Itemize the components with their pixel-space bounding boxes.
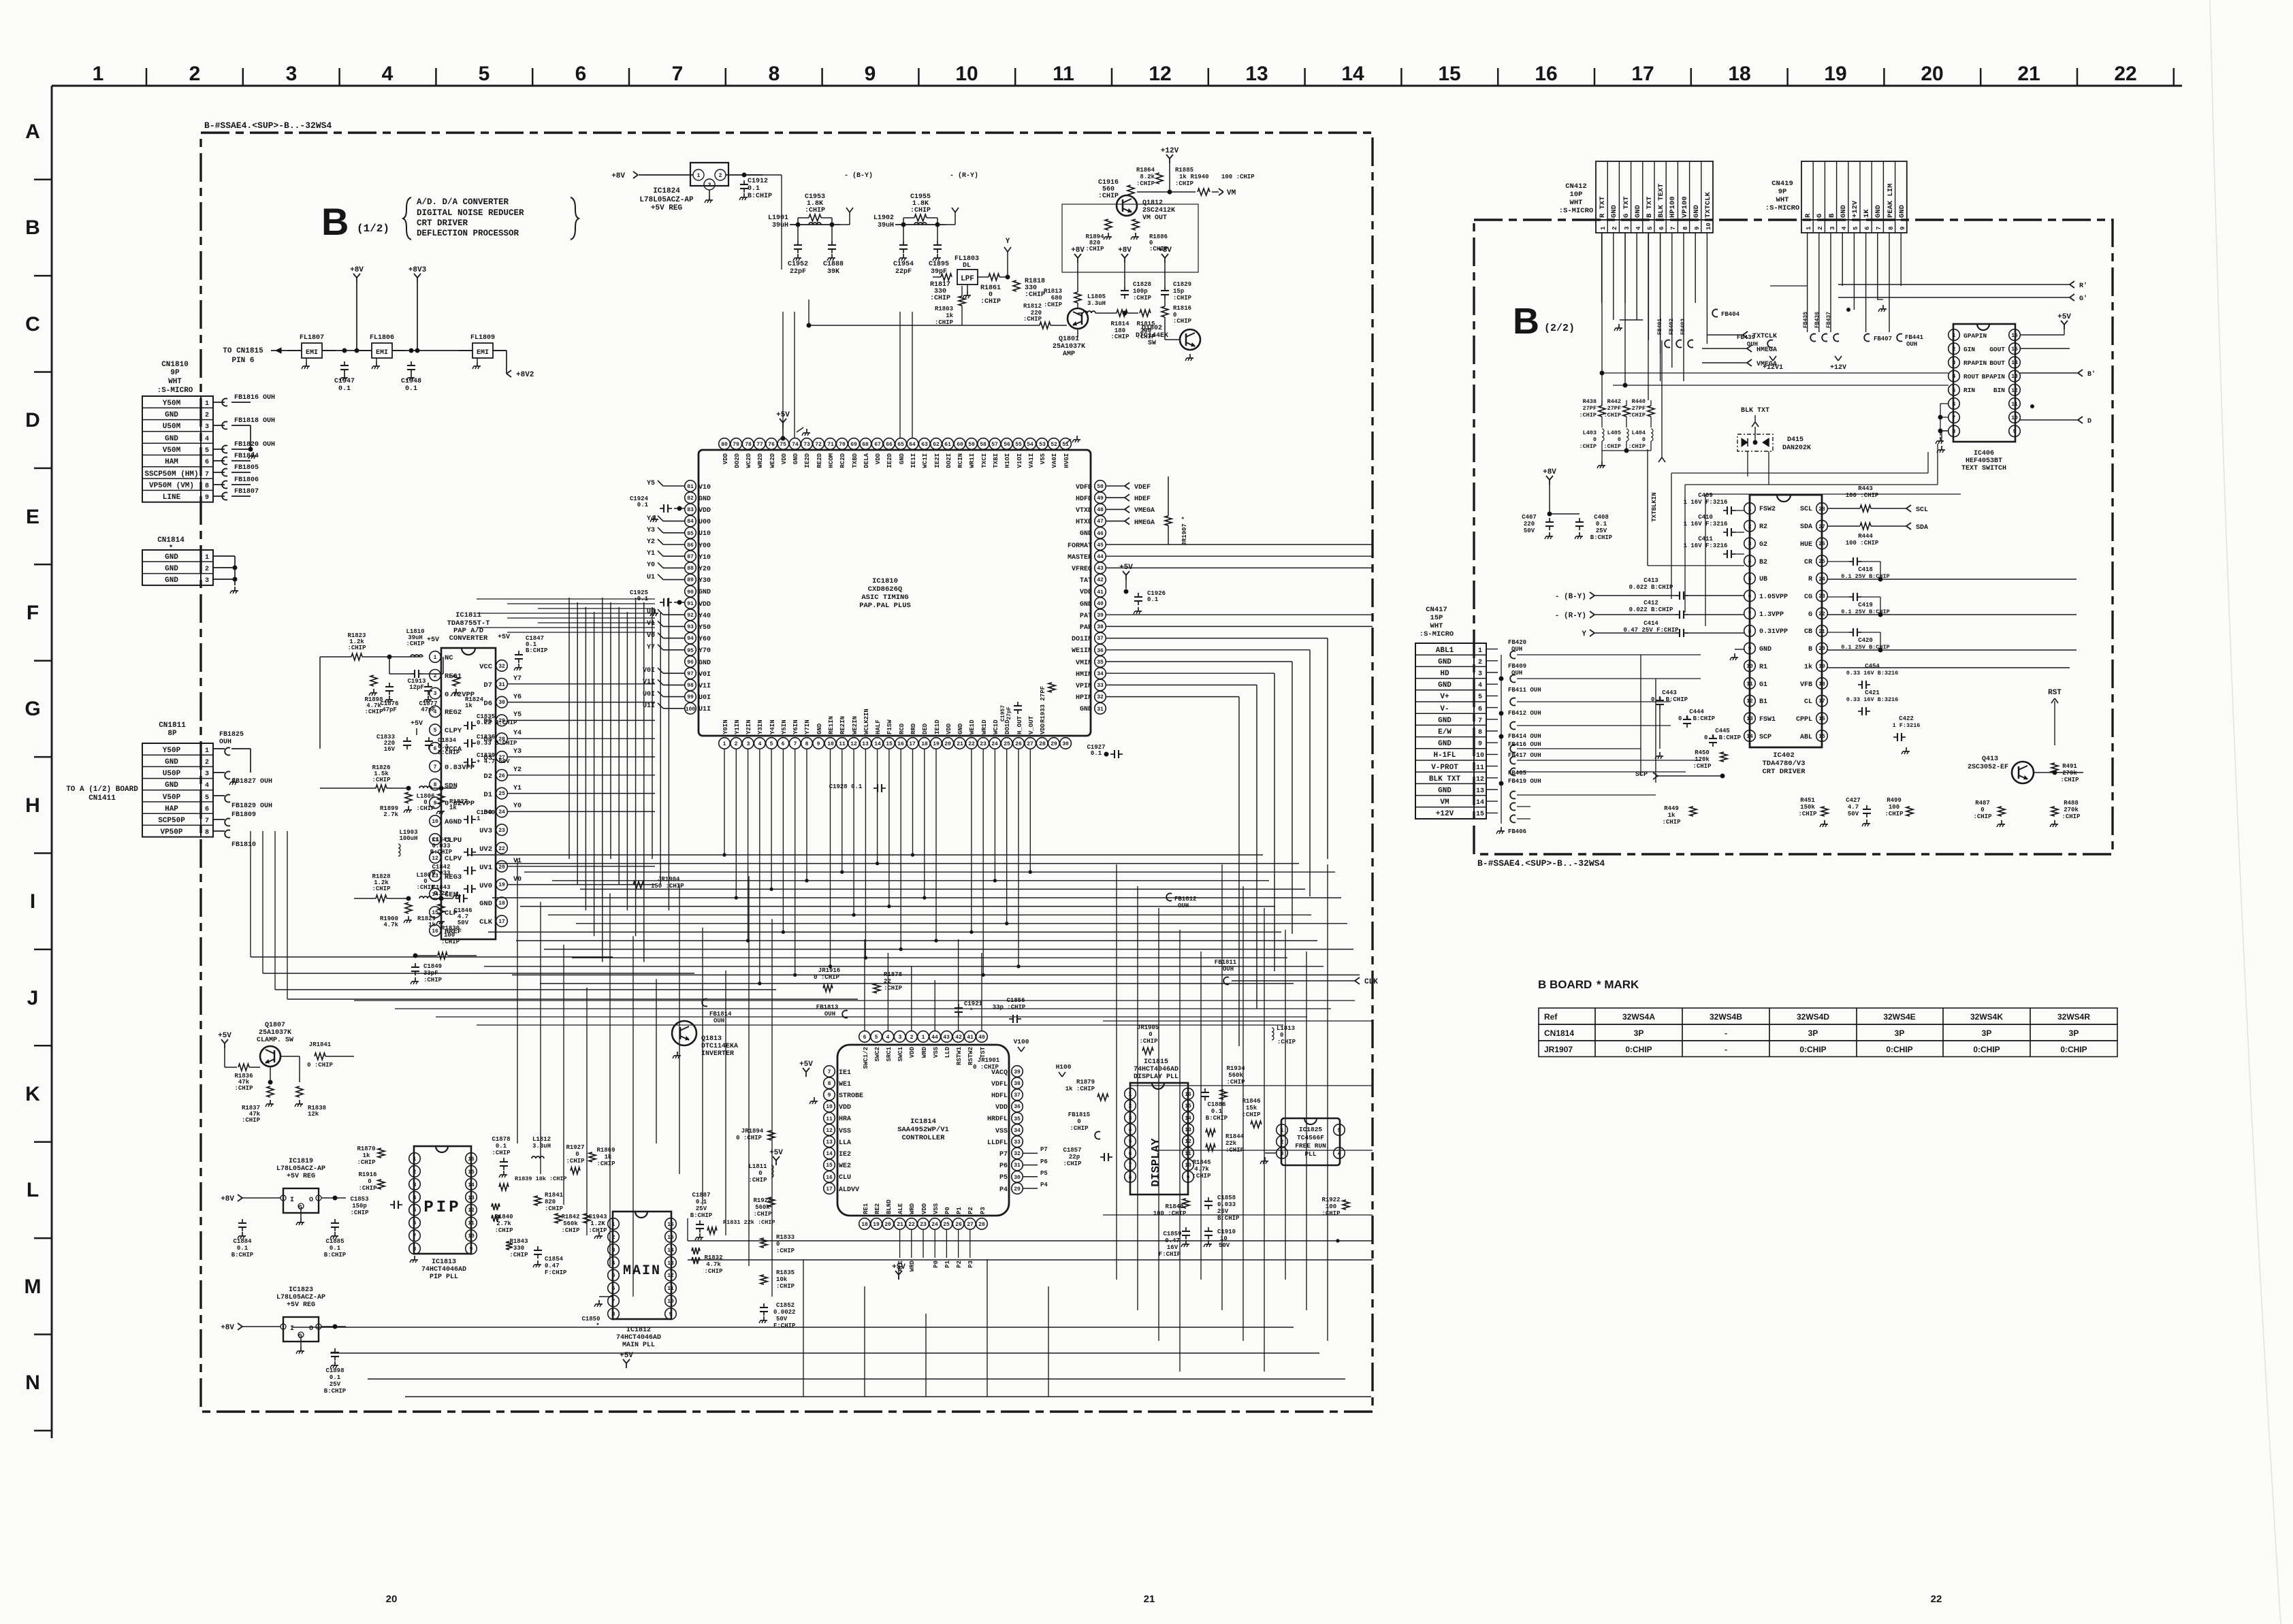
section title B (2/2) (1513, 301, 1575, 342)
svg-text:12: 12 (667, 1273, 674, 1279)
svg-text::CHIP: :CHIP (1603, 412, 1621, 419)
svg-text:3: 3 (1953, 360, 1956, 366)
svg-text:VSS: VSS (995, 1128, 1008, 1135)
svg-text::CHIP: :CHIP (234, 1085, 253, 1092)
svg-text:GND: GND (165, 576, 178, 585)
ASIC IC1810 CXD8626Q (timing PAP.PAL PLUS) with 100 pins (685, 438, 1106, 749)
regulator IC1824 L78L05ACZ-AP +5V REG (611, 163, 772, 212)
svg-text:+5V REG: +5V REG (651, 204, 683, 212)
svg-text:TC4566F: TC4566F (1297, 1134, 1324, 1141)
svg-text:V-PROT: V-PROT (1431, 764, 1458, 772)
svg-text:R1870: R1870 (357, 1146, 375, 1152)
svg-text:C1858: C1858 (1217, 1195, 1236, 1201)
svg-text:CRT DRIVER: CRT DRIVER (1762, 768, 1806, 776)
svg-text:120k: 120k (1695, 756, 1710, 763)
svg-text:V0I: V0I (643, 667, 655, 675)
svg-text:SSCP50M (HM): SSCP50M (HM) (144, 470, 198, 478)
svg-text:Y6: Y6 (513, 694, 522, 701)
svg-text:R1803: R1803 (935, 306, 953, 312)
svg-text:WRD: WRD (909, 1260, 916, 1271)
svg-text:0.1: 0.1 (405, 385, 417, 393)
svg-text:8: 8 (1682, 227, 1689, 230)
svg-text:V0I: V0I (699, 671, 711, 679)
svg-text:B: B (1808, 646, 1812, 653)
svg-text:JR1841: JR1841 (309, 1041, 332, 1048)
section title B (1/2) (321, 197, 579, 243)
svg-text:CN417: CN417 (1426, 606, 1447, 614)
svg-text:26: 26 (955, 1222, 962, 1228)
svg-text:CRT DRIVER: CRT DRIVER (417, 218, 468, 228)
svg-text:R1839 18k :CHIP: R1839 18k :CHIP (515, 1175, 567, 1182)
svg-text:5: 5 (770, 741, 773, 747)
svg-text:B:CHIP: B:CHIP (1206, 1115, 1228, 1122)
svg-text:23: 23 (980, 741, 987, 747)
svg-text:15: 15 (826, 1163, 833, 1169)
svg-text:B-#SSAE4.<SUP>-B..-32WS4: B-#SSAE4.<SUP>-B..-32WS4 (1477, 858, 1605, 868)
svg-text:13: 13 (2011, 374, 2018, 380)
svg-text:3: 3 (286, 63, 298, 85)
svg-text:R1813: R1813 (1044, 288, 1062, 295)
svg-text:B2: B2 (1759, 559, 1767, 566)
svg-text:Y50: Y50 (699, 624, 711, 632)
svg-text:CPPL: CPPL (1796, 716, 1812, 724)
svg-text:GND: GND (1898, 205, 1906, 218)
svg-text:36: 36 (1014, 1104, 1021, 1110)
svg-text:47: 47 (1097, 519, 1104, 525)
svg-text::CHIP: :CHIP (1173, 318, 1192, 325)
ferrite beads FB1816/FB1818/FB1820/FB1804-FB1807 on CN1810 (213, 394, 275, 500)
svg-text:JR1894: JR1894 (741, 1128, 764, 1135)
svg-text:100: 100 (1326, 1203, 1336, 1210)
svg-text:FB1810: FB1810 (231, 841, 256, 849)
svg-text:FB435: FB435 (1803, 312, 1809, 328)
svg-text:HD: HD (1440, 670, 1449, 678)
svg-text::CHIP: :CHIP (364, 709, 383, 715)
svg-text:GND: GND (1693, 205, 1701, 218)
svg-text:C1887: C1887 (692, 1192, 710, 1199)
svg-text:C1829: C1829 (1173, 281, 1191, 288)
svg-text:0.1: 0.1 (696, 1199, 707, 1205)
svg-text::CHIP: :CHIP (1063, 1160, 1082, 1167)
svg-text::CHIP: :CHIP (441, 939, 460, 945)
svg-text:0: 0 (758, 1170, 762, 1177)
svg-text:94: 94 (687, 636, 694, 642)
svg-text:A: A (25, 120, 40, 143)
svg-text:3P: 3P (1808, 1028, 1818, 1038)
svg-text:11: 11 (1185, 1151, 1191, 1157)
svg-text:30: 30 (498, 700, 505, 706)
svg-text:32WS4E: 32WS4E (1883, 1012, 1915, 1022)
svg-text:IC1813: IC1813 (432, 1258, 456, 1266)
svg-text:U50P: U50P (163, 770, 181, 778)
svg-text:95: 95 (687, 648, 694, 654)
svg-text:VDD: VDD (699, 601, 711, 608)
svg-text:9: 9 (1187, 1175, 1190, 1181)
wire bus bottom horizontals (293, 1259, 1371, 1397)
svg-text:0.47: 0.47 (545, 1263, 560, 1269)
svg-text:100 :CHIP: 100 :CHIP (1846, 492, 1879, 499)
svg-text:U1: U1 (647, 574, 655, 581)
svg-text:78: 78 (745, 442, 752, 448)
svg-text:15: 15 (1185, 1103, 1191, 1109)
svg-text:VDD: VDD (1080, 589, 1092, 596)
svg-text:330: 330 (513, 1245, 524, 1252)
svg-text::CHIP: :CHIP (1226, 1079, 1245, 1086)
svg-text:1k: 1k (428, 922, 436, 928)
svg-text:SW: SW (1148, 340, 1156, 347)
svg-text:P0: P0 (933, 1261, 940, 1268)
svg-text::CHIP: :CHIP (406, 640, 425, 647)
svg-text:C1886: C1886 (1207, 1101, 1225, 1108)
svg-text:OUH: OUH (713, 1018, 724, 1024)
svg-text:DTC114EKA: DTC114EKA (701, 1043, 738, 1050)
svg-text:O: O (309, 1325, 313, 1333)
svg-text:C1943: C1943 (588, 1214, 607, 1220)
svg-text:FB1807: FB1807 (234, 488, 259, 496)
svg-text:HMIN: HMIN (1076, 671, 1092, 679)
svg-text:Y20: Y20 (699, 566, 711, 573)
svg-text:1: 1 (1281, 1128, 1284, 1134)
svg-text:19: 19 (873, 1222, 880, 1228)
svg-text:R451: R451 (1800, 797, 1815, 804)
svg-text:4: 4 (1129, 1127, 1132, 1133)
svg-text:9: 9 (1899, 227, 1906, 230)
svg-text:8: 8 (434, 782, 437, 788)
svg-text:7: 7 (1748, 611, 1752, 617)
svg-text:Y7: Y7 (513, 675, 522, 683)
svg-text:88: 88 (687, 566, 694, 572)
svg-text:1: 1 (1478, 647, 1482, 655)
svg-text::CHIP: :CHIP (1175, 180, 1194, 187)
svg-text:6: 6 (1864, 227, 1871, 230)
svg-text:9: 9 (669, 1312, 673, 1318)
svg-text:BPAPIN: BPAPIN (1982, 373, 2006, 380)
svg-text:TEXT SWITCH: TEXT SWITCH (1961, 465, 2006, 472)
svg-text:WE1IN: WE1IN (1072, 647, 1092, 655)
svg-text:91: 91 (687, 601, 694, 607)
svg-text:L404: L404 (1632, 429, 1646, 436)
svg-text:0:CHIP: 0:CHIP (2060, 1045, 2087, 1054)
svg-text:6: 6 (1748, 594, 1752, 600)
svg-text:GND: GND (165, 435, 178, 443)
svg-text:SRC1: SRC1 (886, 1046, 893, 1061)
svg-text:0: 0 (776, 1241, 780, 1248)
svg-text:13: 13 (468, 1195, 475, 1201)
svg-text:20: 20 (386, 1593, 398, 1605)
svg-text:P5: P5 (1040, 1170, 1048, 1177)
svg-text::CHIP: :CHIP (1885, 811, 1904, 817)
svg-text:P1: P1 (944, 1260, 951, 1267)
svg-text:Q413: Q413 (1982, 756, 1998, 763)
svg-text:0.83VPP: 0.83VPP (445, 764, 475, 772)
svg-text:29: 29 (1051, 741, 1057, 747)
svg-text:C1852: C1852 (776, 1302, 795, 1309)
CN412 output wires TXTCLK HMEGA VMEGA FB401-FB404 TXTBLKIN (1602, 232, 1777, 381)
svg-text:4: 4 (1338, 1151, 1341, 1157)
svg-text:2SC3052-EF: 2SC3052-EF (1968, 764, 2008, 771)
svg-text:Q1801: Q1801 (1059, 336, 1079, 343)
svg-text:Q1812: Q1812 (1142, 199, 1163, 207)
svg-text:11: 11 (839, 741, 846, 747)
svg-text:GND: GND (699, 496, 711, 503)
svg-text:VCC: VCC (479, 663, 493, 671)
svg-text:35: 35 (1014, 1116, 1021, 1122)
svg-text:45: 45 (1097, 542, 1104, 549)
svg-text:8: 8 (612, 1312, 615, 1318)
svg-text::CHIP: :CHIP (1085, 246, 1104, 253)
svg-text:8: 8 (413, 1246, 417, 1252)
svg-text:R487: R487 (1975, 800, 1990, 807)
svg-text:RE2: RE2 (874, 1203, 881, 1214)
svg-text:PAT: PAT (1080, 613, 1092, 620)
svg-text:HVGI: HVGI (1063, 453, 1070, 468)
svg-text:FB417 OUH: FB417 OUH (1508, 752, 1541, 759)
svg-text:15p: 15p (1173, 288, 1184, 295)
svg-text:FREE RUN: FREE RUN (1295, 1142, 1326, 1150)
svg-text::CHIP: :CHIP (704, 1268, 723, 1275)
wire bus verticals to PLL area (517, 859, 982, 1297)
svg-text:270k: 270k (2062, 770, 2077, 777)
svg-text:SCL: SCL (1800, 506, 1812, 513)
svg-text:0: 0 (368, 1178, 371, 1185)
svg-text:19: 19 (498, 882, 505, 888)
svg-text:3: 3 (434, 691, 437, 697)
svg-text:Y0IN: Y0IN (722, 719, 729, 734)
svg-text:C407: C407 (1522, 514, 1537, 521)
svg-text:16: 16 (2011, 333, 2018, 339)
svg-text:DED: DED (922, 723, 929, 734)
svg-text:17: 17 (498, 919, 505, 925)
svg-text:I: I (290, 1325, 294, 1333)
svg-text:D: D (25, 409, 40, 432)
svg-text:G TXT: G TXT (1622, 196, 1631, 218)
svg-text:R443: R443 (1858, 485, 1873, 492)
svg-text::CHIP: :CHIP (1225, 1147, 1245, 1154)
wire bus horizontal (mid interconnect) (251, 831, 1360, 1025)
wire C1850 stub (594, 1297, 613, 1307)
ferrite beads FB1825/FB1827/FB1829/FB1809/FB1810 on CN1811 (213, 731, 272, 849)
svg-text:15k: 15k (1246, 1105, 1257, 1111)
svg-text::CHIP: :CHIP (372, 886, 391, 892)
svg-text:27pF: 27pF (1006, 707, 1012, 719)
svg-text::CHIP: :CHIP (242, 1117, 261, 1124)
svg-text:TXTCLK: TXTCLK (1752, 333, 1777, 340)
svg-text:Q1802: Q1802 (1142, 325, 1162, 332)
svg-text:22: 22 (498, 846, 505, 852)
svg-text:5: 5 (1338, 1128, 1341, 1134)
svg-text:Y7IN: Y7IN (804, 719, 811, 734)
svg-text:31: 31 (498, 682, 505, 688)
controller IC1814 SAA4952WP/V1 44-pin (824, 1031, 1023, 1230)
svg-text:FB402: FB402 (1669, 319, 1675, 335)
svg-text:5: 5 (413, 1207, 417, 1214)
svg-text:13: 13 (1746, 716, 1753, 722)
svg-text:FB1818 OUH: FB1818 OUH (234, 417, 275, 425)
svg-text:12: 12 (850, 741, 857, 747)
svg-text::CHIP: :CHIP (776, 1283, 795, 1290)
svg-text:G2: G2 (1759, 541, 1767, 549)
svg-text:6: 6 (1953, 402, 1956, 408)
svg-text:2: 2 (205, 412, 209, 419)
svg-text:B:CHIP: B:CHIP (526, 647, 548, 654)
svg-text:CG: CG (1804, 594, 1812, 601)
svg-text:14: 14 (667, 1248, 674, 1254)
svg-text:Y60: Y60 (699, 636, 711, 643)
svg-text::CHIP: :CHIP (588, 1227, 607, 1234)
svg-text:5: 5 (612, 1273, 615, 1279)
svg-text::CHIP: :CHIP (2060, 777, 2079, 783)
svg-text:C1885: C1885 (325, 1238, 344, 1245)
svg-text:VMIN: VMIN (1076, 660, 1092, 667)
svg-text:38: 38 (1014, 1081, 1021, 1087)
svg-text:PEAK LIM: PEAK LIM (1887, 184, 1895, 218)
svg-text:0.1: 0.1 (237, 1245, 248, 1252)
svg-text:+5V: +5V (498, 634, 510, 641)
svg-text:79: 79 (733, 442, 739, 448)
svg-text:20: 20 (884, 1222, 891, 1228)
svg-text:(2/2): (2/2) (1544, 323, 1575, 334)
svg-text:HAM: HAM (165, 458, 178, 466)
svg-text:-: - (1725, 1045, 1727, 1054)
svg-text:49: 49 (1097, 496, 1104, 502)
svg-text:PIN 6: PIN 6 (231, 357, 254, 365)
svg-text:HDFD: HDFD (1076, 496, 1092, 503)
svg-text:H1OI: H1OI (1004, 453, 1011, 468)
svg-text:3P: 3P (1895, 1028, 1905, 1038)
svg-text:B: B (1513, 301, 1539, 342)
svg-text:14: 14 (1746, 734, 1753, 740)
svg-text:81: 81 (687, 484, 694, 490)
svg-text:8: 8 (805, 741, 809, 747)
svg-text:C1928 0.1: C1928 0.1 (829, 783, 863, 790)
svg-text:VDD: VDD (875, 453, 882, 464)
svg-text:P5: P5 (999, 1174, 1008, 1182)
svg-text:1.3VPP: 1.3VPP (1759, 611, 1784, 619)
svg-text:0: 0 (1618, 436, 1621, 443)
svg-text:16V: 16V (384, 746, 396, 753)
svg-text:CLAMP. SW: CLAMP. SW (257, 1037, 293, 1044)
svg-text:+8V: +8V (1543, 468, 1556, 476)
svg-text:4: 4 (205, 782, 209, 790)
svg-text::CHIP: :CHIP (416, 884, 435, 891)
svg-text:+5V REG: +5V REG (287, 1173, 315, 1180)
svg-text:DIGITAL NOISE REDUCER: DIGITAL NOISE REDUCER (417, 208, 524, 218)
svg-text:0: 0 (575, 1151, 579, 1158)
svg-text:3.3uH: 3.3uH (532, 1143, 551, 1150)
svg-text:14: 14 (874, 741, 881, 747)
svg-text::CHIP: :CHIP (748, 1177, 767, 1184)
svg-text:43: 43 (1097, 566, 1104, 572)
svg-text:B:CHIP: B:CHIP (748, 193, 772, 200)
svg-text:74HCT4046AD: 74HCT4046AD (1134, 1066, 1178, 1073)
svg-text::CHIP: :CHIP (1133, 295, 1152, 302)
svg-text:16: 16 (432, 928, 438, 935)
svg-text:1: 1 (697, 173, 701, 179)
svg-text:TXBI: TXBI (993, 453, 999, 468)
svg-text:13: 13 (1245, 63, 1268, 85)
svg-text:AGND: AGND (445, 818, 462, 826)
IC1810 decoupling C1926 C1927 C1928 R1933 C1957 (829, 476, 1188, 792)
svg-text:RC2D: RC2D (839, 453, 846, 468)
svg-text:PAP: PAP (1080, 624, 1092, 632)
svg-text:7: 7 (205, 471, 209, 478)
svg-text::CHIP: :CHIP (2062, 813, 2081, 820)
svg-text:LPF: LPF (961, 275, 974, 283)
svg-text:3: 3 (747, 741, 750, 747)
svg-text:71: 71 (827, 442, 834, 448)
svg-text:Y50M: Y50M (163, 400, 181, 408)
wire UB pin5 to left bundle (1648, 449, 1744, 566)
svg-text::CHIP: :CHIP (358, 1185, 377, 1192)
svg-text::S-MICRO: :S-MICRO (1765, 204, 1799, 212)
svg-text:GND: GND (1438, 717, 1452, 725)
svg-text:8: 8 (205, 829, 209, 837)
svg-text:*: * (169, 545, 174, 553)
svg-text:CR: CR (1804, 559, 1812, 566)
border ruler top (52, 63, 2182, 86)
svg-text:820: 820 (545, 1199, 556, 1205)
svg-text::CHIP: :CHIP (1693, 763, 1712, 770)
svg-text:11: 11 (667, 1286, 674, 1292)
svg-text:IC1815: IC1815 (1144, 1058, 1168, 1066)
svg-text:+12V1: +12V1 (1763, 364, 1783, 372)
svg-text:R1916: R1916 (358, 1171, 376, 1178)
wire mesh B(2/2) CN412 to IC406/IC402 (1600, 232, 1961, 626)
svg-text:ASIC TIMING: ASIC TIMING (861, 594, 908, 602)
svg-text:*: * (596, 1322, 599, 1329)
svg-text:-: - (1725, 1028, 1727, 1038)
svg-text:0: 0 (1593, 436, 1597, 443)
svg-text:10: 10 (826, 1104, 833, 1110)
svg-text:FB1816 OUH: FB1816 OUH (234, 394, 275, 402)
svg-text:GND: GND (899, 453, 905, 464)
svg-text:V1I: V1I (643, 679, 655, 686)
svg-text:2: 2 (1478, 659, 1482, 666)
svg-text:C1856: C1856 (1006, 997, 1025, 1004)
svg-text:24: 24 (498, 809, 505, 815)
svg-text:FB439: FB439 (1737, 334, 1755, 341)
regulator IC1819 L78L05ACZ-AP (221, 1158, 347, 1258)
svg-text:0.31VPP: 0.31VPP (1759, 628, 1788, 636)
svg-text:42: 42 (955, 1035, 962, 1041)
svg-text:P0: P0 (944, 1207, 951, 1214)
svg-text:7: 7 (434, 764, 437, 770)
svg-text:22p: 22p (1069, 1154, 1080, 1160)
svg-text:IE2D: IE2D (886, 453, 893, 468)
svg-text:0:CHIP: 0:CHIP (1973, 1045, 2000, 1054)
svg-text:UB: UB (1759, 576, 1767, 583)
svg-text:Y2: Y2 (513, 766, 522, 774)
svg-text::CHIP: :CHIP (1798, 811, 1817, 817)
svg-text:LLDFL: LLDFL (987, 1139, 1008, 1147)
svg-text:27: 27 (1027, 741, 1033, 747)
svg-text:25V: 25V (696, 1205, 707, 1212)
svg-text:1: 1 (1129, 1092, 1132, 1098)
svg-text:65: 65 (897, 442, 904, 448)
svg-text:JR1907 *: JR1907 * (1181, 516, 1188, 545)
svg-text:6: 6 (863, 1035, 867, 1041)
svg-text::CHIP: :CHIP (1321, 1210, 1341, 1217)
svg-text:OUH: OUH (1178, 903, 1189, 909)
svg-text:8: 8 (205, 483, 209, 490)
svg-text:1k: 1k (449, 805, 457, 811)
svg-text:GND: GND (479, 900, 492, 908)
svg-text:42: 42 (1097, 577, 1104, 583)
svg-text:GND: GND (1874, 205, 1882, 218)
svg-text:VP50M (VM): VP50M (VM) (149, 482, 194, 490)
transistor Q1807 25A1037K CLAMP SW with R1836 R1837 R1838 JR1841 (218, 1022, 354, 1124)
svg-text:SWC1: SWC1 (897, 1046, 904, 1061)
